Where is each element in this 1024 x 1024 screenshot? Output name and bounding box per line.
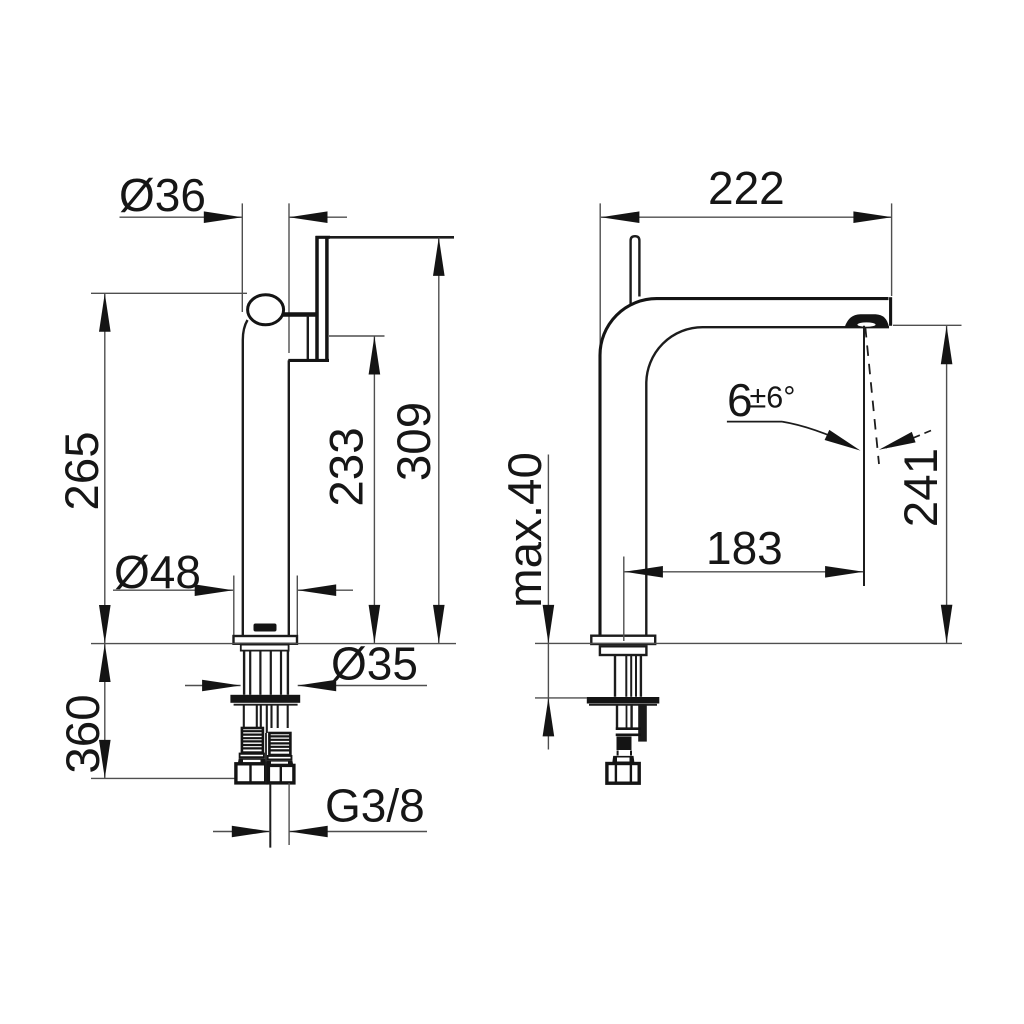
second hose behind (dark sliver) — [638, 705, 647, 742]
spout inner profile — [646, 327, 889, 636]
horseshoe washer (side) — [587, 697, 660, 704]
wire: 183 extension line (faucet axis) — [623, 557, 625, 642]
wire: 222 dimension line — [601, 216, 892, 218]
faucet body right edge — [288, 360, 290, 636]
wire: 309 top extension (continuation of spout top line) — [330, 236, 454, 239]
wire: Ø36 extension line right — [288, 203, 290, 353]
hose connector bands (side) — [616, 727, 641, 730]
wire: 265 top reference line — [91, 292, 247, 294]
aerator dome at spout tip — [846, 315, 889, 327]
knob (handle end) ellipse — [248, 295, 284, 325]
hose nut (side) — [607, 764, 639, 784]
wire: max.40 lower reference line — [535, 697, 587, 699]
wire: 241 extension line — [893, 324, 962, 326]
svg-text:Ø36: Ø36 — [119, 169, 206, 221]
spout right end — [889, 297, 892, 326]
handle stem — [283, 312, 316, 317]
wire: Ø36 dimension line — [120, 216, 243, 218]
wire: 233 extension line — [329, 335, 385, 337]
svg-text:265: 265 — [56, 431, 109, 510]
svg-text:309: 309 — [388, 402, 441, 481]
shank (side) — [614, 655, 616, 697]
mounting collar under plate — [241, 645, 289, 651]
spout outer profile — [600, 299, 889, 636]
hose (side view) — [616, 705, 618, 728]
wire: 222 extension line right — [891, 203, 893, 296]
wire: 360 bottom reference line — [91, 777, 236, 779]
left hose connector stack — [236, 728, 266, 783]
horseshoe washer (front) — [230, 695, 300, 703]
wire: Ø35 dimension line — [185, 685, 241, 687]
wire: 233 dimension line — [373, 336, 375, 643]
wire: max.40 dimension line — [547, 455, 549, 750]
Ø48 base skirt edges (also extension lines) — [233, 576, 235, 636]
leader curve to vertical line — [782, 422, 852, 447]
dashed angle arc — [886, 431, 931, 449]
right hose connector stack — [266, 733, 294, 783]
wire: Ø48 dimension line — [113, 589, 233, 591]
wire: jet axis vertical extension line — [863, 326, 865, 586]
wire: 309 dimension line — [438, 237, 440, 643]
counter reference line (front) — [91, 643, 456, 645]
wire: G3/8 extension lines — [269, 783, 271, 848]
svg-text:±6°: ±6° — [750, 381, 796, 415]
KEUCO logo mark — [254, 624, 277, 632]
svg-text:360: 360 — [57, 694, 110, 773]
under-counter flange (side) — [600, 646, 647, 655]
svg-text:233: 233 — [320, 427, 373, 506]
svg-text:G3/8: G3/8 — [325, 780, 425, 832]
counter reference line (side view) — [535, 642, 962, 644]
svg-text:max.40: max.40 — [499, 452, 552, 608]
base plate (front) — [234, 636, 298, 644]
svg-text:241: 241 — [895, 448, 948, 527]
spout slab (front view) — [315, 236, 319, 360]
wire: 265/360 dimension line — [104, 293, 106, 778]
wire: G3/8 dimension line — [213, 831, 270, 833]
base plate (side) — [591, 636, 655, 644]
centerline between hoses — [265, 733, 267, 783]
svg-text:183: 183 — [706, 522, 783, 574]
lever rod — [631, 236, 640, 304]
supply hoses upper section (front) — [244, 705, 288, 733]
wire: 222 extension line left — [599, 203, 601, 348]
wire: Ø36 extension line left — [241, 203, 243, 312]
threaded shank (front) — [243, 651, 245, 695]
svg-text:222: 222 — [708, 162, 785, 214]
svg-text:Ø48: Ø48 — [114, 546, 201, 598]
wire: 183 dimension line — [624, 571, 863, 573]
wire: 241 dimension line — [946, 326, 948, 644]
svg-text:Ø35: Ø35 — [331, 638, 418, 690]
faucet body left edge — [243, 320, 248, 636]
jet direction dashed line (6 deg) — [865, 327, 879, 464]
